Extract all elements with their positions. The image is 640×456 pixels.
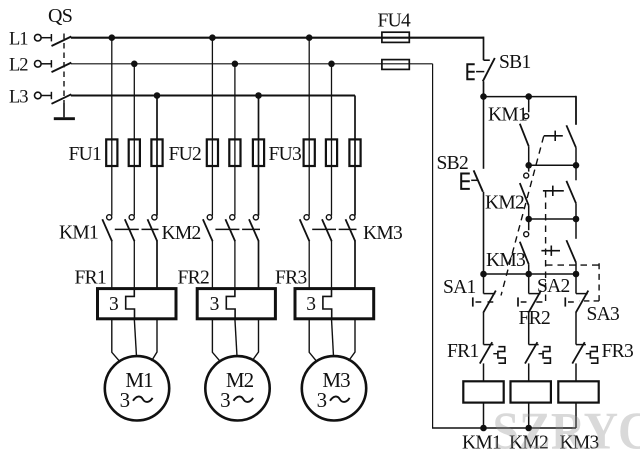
- svg-text:3: 3: [120, 388, 130, 412]
- wire rail SB1 to SB2: [483, 97, 485, 169]
- thermal contact FR1 hook: [498, 347, 505, 364]
- switch SA2 jog: [529, 293, 541, 295]
- fuse FU4 (L2): [382, 60, 409, 70]
- svg-text:FR2: FR2: [178, 268, 210, 289]
- pushbutton SB2 blade: [474, 170, 483, 191]
- manual contact 3 bar: [541, 250, 560, 252]
- switch SA3 handle tick: [564, 297, 566, 306]
- switch SA3 handle dash: [568, 301, 574, 303]
- fuse FU1 pole 3: [151, 139, 162, 166]
- wire branch 3 phase 2 lower: [331, 241, 333, 290]
- thermal contact FR3 lower wire: [575, 363, 577, 381]
- QS fixed contact tick L1: [50, 34, 52, 41]
- svg-text:SA3: SA3: [587, 304, 620, 325]
- wire L1 lead: [41, 37, 51, 39]
- svg-text:FU3: FU3: [269, 144, 302, 165]
- svg-text:L2: L2: [9, 56, 28, 76]
- fuse FU3 pole 1: [304, 139, 315, 166]
- wire L1 to control (corner down): [483, 37, 485, 61]
- wire branch 3 phase 3 lower: [354, 241, 356, 290]
- svg-text:FR2: FR2: [519, 308, 551, 329]
- svg-text:KM1: KM1: [59, 222, 98, 243]
- coil KM3: [558, 381, 598, 402]
- fuse FU3 pole 2: [326, 139, 337, 166]
- switch SA2 handle tick: [517, 297, 519, 306]
- switch SA1 handle dash 2: [488, 301, 494, 303]
- svg-text:KM1: KM1: [488, 105, 527, 126]
- terminal L2 circle: [35, 61, 42, 68]
- node A junction: [480, 93, 487, 100]
- node bus3-KM junction: [525, 216, 532, 223]
- fuse FU1 pole 2: [129, 139, 140, 166]
- pushbutton SB1 actuator: [467, 64, 474, 79]
- svg-text:QS: QS: [48, 5, 72, 27]
- thermal relay FR3 box: [295, 289, 374, 319]
- manual contact 3 blade: [566, 240, 576, 262]
- QS fixed contact tick L2: [50, 60, 52, 67]
- contact KM2 aux hook: [524, 173, 529, 178]
- wire branch 1 motor lead 1: [112, 319, 120, 361]
- thermal relay FR2 box: [197, 289, 275, 319]
- switch SA1 lower wire: [483, 313, 485, 345]
- thermal contact FR2 dash: [539, 353, 543, 355]
- fuse FU2 pole 3: [253, 139, 264, 166]
- svg-text:M1: M1: [125, 368, 153, 392]
- svg-text:L3: L3: [9, 87, 28, 107]
- contact KM2 aux blade: [520, 183, 529, 206]
- switch SA2 handle dash 2: [536, 301, 542, 303]
- switch SA2 blade: [528, 291, 541, 313]
- thermal contact FR3 dash: [586, 353, 590, 355]
- manual contact 1 lower wire: [575, 148, 577, 166]
- contactor KM1 main contact pole 2: [129, 215, 134, 220]
- svg-text:FU2: FU2: [169, 144, 202, 165]
- contactor KM1 main contact pole 1: [107, 215, 112, 220]
- switch SA3 lower wire: [575, 313, 577, 345]
- contactor KM2 link dash 2: [242, 228, 260, 230]
- thermal contact FR2 tick: [529, 344, 539, 346]
- wire branch 3 motor lead 1: [309, 319, 316, 361]
- motor M2: [205, 356, 269, 420]
- contact KM1 aux blade: [520, 124, 529, 147]
- node bus2-right junction: [573, 162, 580, 169]
- contact KM1 aux upper wire: [528, 97, 530, 113]
- fuse FU2 pole 2: [229, 139, 240, 166]
- svg-text:FR1: FR1: [447, 341, 479, 362]
- manual contact 2 lower wire: [575, 203, 577, 219]
- svg-text:FU4: FU4: [378, 11, 412, 32]
- wire branch 1 phase 3 upper: [156, 96, 158, 216]
- wire rail SB2 to bus4: [483, 192, 485, 274]
- svg-text:M2: M2: [226, 368, 254, 392]
- svg-text:SB2: SB2: [437, 153, 469, 174]
- contactor KM2 main contact pole 2: [230, 215, 235, 220]
- wire L2 lead: [41, 63, 51, 65]
- manual contact 3 lower wire: [575, 263, 577, 274]
- QS blade L3: [52, 94, 72, 104]
- wire L3 bus: [71, 95, 355, 97]
- contact KM3 aux lower wire: [528, 264, 530, 274]
- node bus3-right junction: [573, 216, 580, 223]
- wire bottom bus: [432, 427, 576, 429]
- QS blade L2: [52, 63, 72, 73]
- switch SA1 handle dash: [476, 301, 482, 303]
- pushbutton SB2 actuator: [461, 174, 470, 189]
- svg-text:FU1: FU1: [69, 144, 102, 165]
- switch SA1 handle tick: [472, 297, 474, 306]
- QS fixed contact tick L3: [50, 92, 52, 99]
- thermal relay FR1 box: [98, 289, 177, 319]
- svg-text:SA1: SA1: [443, 277, 476, 298]
- thermal contact FR1 tick: [484, 344, 494, 346]
- svg-text:M3: M3: [322, 368, 350, 392]
- node bus1-KM1 junction: [525, 93, 532, 100]
- contact KM1 aux lower wire: [528, 146, 530, 165]
- fuse FU1 pole 1: [106, 139, 117, 166]
- wire branch 2 motor lead 1: [212, 319, 220, 361]
- svg-text:SB1: SB1: [499, 52, 531, 73]
- switch SA1 blade: [483, 291, 496, 313]
- switch SA2 lower wire: [528, 313, 530, 345]
- mechanical link dashed vertical (bar2 to SA2): [545, 191, 547, 301]
- manual contact 2 bar tick: [552, 186, 554, 196]
- wire L3 lead: [41, 95, 51, 97]
- contactor KM3 main contact pole 1: [304, 215, 309, 220]
- wire branch 2 phase 1 upper: [211, 38, 213, 216]
- contactor KM2 main contact pole 3: [253, 215, 258, 220]
- ground bar: [54, 117, 75, 120]
- wire branch 1 phase 2 upper: [133, 64, 135, 216]
- pushbutton SB2 link dash: [471, 179, 477, 181]
- contactor KM1 main contact pole 3: [152, 215, 157, 220]
- wire branch 3 phase 1 lower: [308, 241, 310, 290]
- wire coil KM2 to bottom bus: [528, 403, 530, 428]
- wire branch 2 motor lead 3: [252, 319, 259, 361]
- switch SA1 jog: [484, 293, 496, 295]
- manual contact 1 bar tick: [554, 131, 556, 141]
- contactor KM1 link dash 2: [142, 228, 159, 230]
- terminal L3 circle: [35, 92, 42, 99]
- node L1 tap branch 1: [109, 34, 116, 41]
- svg-text:SA2: SA2: [537, 276, 570, 297]
- svg-text:FR3: FR3: [602, 341, 634, 362]
- node L2 tap branch 2: [232, 61, 239, 68]
- fuse FU4 (L1): [382, 32, 409, 42]
- contactor KM3 link dash 1: [312, 228, 336, 230]
- wire coil KM1 to bottom bus: [483, 403, 485, 428]
- thermal contact FR1 lower wire: [483, 363, 485, 381]
- contact KM3 aux upper wire: [528, 219, 530, 230]
- pushbutton SB1 blade: [483, 58, 495, 81]
- wire branch 2 phase 1 lower: [211, 241, 213, 290]
- thermal contact FR3 hook: [590, 347, 597, 364]
- node bus4-right junction: [573, 271, 580, 278]
- contact KM3 aux blade: [520, 242, 529, 265]
- svg-text:KM2: KM2: [162, 223, 201, 244]
- mechanical link dashed diagonal (bar1 to SA1): [501, 136, 544, 295]
- svg-text:KM3: KM3: [363, 223, 402, 244]
- wire branch 3 phase 1 upper: [308, 38, 310, 216]
- svg-text:3: 3: [317, 388, 327, 412]
- fuse FU2 pole 1: [207, 139, 218, 166]
- wire bus1: [484, 96, 577, 98]
- manual contact 2 blade: [566, 181, 576, 203]
- coil KM2: [511, 381, 551, 402]
- wire L2 bus: [71, 63, 433, 65]
- ground stem: [63, 103, 65, 117]
- node bottom bus KM1: [480, 425, 487, 432]
- wire coil KM3 to bottom bus: [575, 403, 577, 428]
- svg-text:3: 3: [220, 388, 230, 412]
- pushbutton SB1 link dash: [476, 71, 484, 73]
- motor M1: [105, 356, 169, 420]
- wire L2 return rail: [432, 64, 434, 428]
- switch SA2 handle dash: [521, 301, 527, 303]
- wire branch 2 motor lead 2: [235, 319, 237, 357]
- svg-text:KM2: KM2: [485, 193, 524, 214]
- switch SA3 upper wire: [575, 274, 577, 294]
- manual contact 2 upper wire: [575, 165, 577, 180]
- node L1 tap branch 3: [306, 34, 313, 41]
- svg-text:3: 3: [210, 294, 219, 315]
- svg-text:SZRYC: SZRYC: [493, 403, 640, 456]
- node L3 tap branch 2: [255, 92, 262, 99]
- contactor KM2 main contact pole 1: [207, 215, 212, 220]
- thermal contact FR1 blade: [480, 342, 492, 363]
- motor M3: [302, 356, 366, 420]
- thermal contact FR2 lower wire: [528, 363, 530, 381]
- wire branch 1 phase 2 lower: [133, 241, 135, 290]
- svg-text:L1: L1: [9, 30, 28, 50]
- switch SA3 blade: [576, 291, 589, 313]
- wire bus1 corner down: [575, 96, 577, 125]
- node bus2-KM junction: [525, 162, 532, 169]
- contact KM3 aux hook: [524, 232, 529, 237]
- manual contact 1 blade: [566, 125, 576, 147]
- coil KM1: [463, 381, 503, 402]
- wire branch 1 motor lead 3: [152, 319, 158, 361]
- wire bus3: [529, 218, 576, 220]
- node L2 tap branch 1: [131, 61, 138, 68]
- switch SA2 upper wire: [528, 274, 530, 294]
- thermal contact FR2 blade: [525, 342, 537, 363]
- wire branch 1 phase 1 lower: [111, 241, 113, 290]
- thermal contact FR3 blade: [572, 342, 584, 363]
- contactor KM2 link dash 1: [215, 228, 239, 230]
- svg-text:3: 3: [109, 294, 118, 315]
- switch SA1 upper wire: [483, 274, 485, 294]
- wire bus4: [484, 273, 577, 275]
- thermal relay FR3 heater jog: [323, 289, 332, 319]
- node L1 tap branch 2: [209, 34, 216, 41]
- manual contact 3 upper wire: [575, 219, 577, 239]
- wire branch 3 motor lead 2: [332, 319, 334, 357]
- node bottom bus KM2: [525, 425, 532, 432]
- svg-text:3: 3: [306, 294, 315, 315]
- wire branch 2 phase 3 upper: [258, 96, 260, 216]
- fuse FU3 pole 3: [349, 139, 360, 166]
- wire branch 3 phase 3 upper: [354, 96, 356, 216]
- mechanical link dashed path (bar3 to SA3) top: [546, 264, 599, 266]
- manual contact 3 bar tick: [550, 246, 552, 256]
- wire branch 2 phase 2 upper: [234, 64, 236, 216]
- QS blade L1: [52, 37, 72, 47]
- node bus4-mid junction: [525, 271, 532, 278]
- QS mechanical link (dashed): [63, 34, 65, 104]
- wire bus2: [529, 164, 576, 166]
- wire branch 1 phase 3 lower: [156, 241, 158, 290]
- thermal relay FR2 heater jog: [226, 289, 235, 319]
- thermal contact FR3 tick: [576, 344, 586, 346]
- switch SA3 jog: [576, 293, 588, 295]
- wire L1 bus: [71, 37, 484, 39]
- contactor KM3 main contact pole 3: [350, 215, 355, 220]
- thermal contact FR2 hook: [543, 347, 550, 364]
- manual contact 1 bar: [544, 135, 563, 137]
- manual contact 2 bar: [543, 190, 564, 192]
- contactor KM1 link dash 1: [115, 228, 139, 230]
- contact KM2 aux upper wire: [528, 165, 530, 171]
- svg-text:FR3: FR3: [275, 268, 307, 289]
- node L3 tap branch 1: [154, 92, 161, 99]
- node bus4-left junction: [480, 271, 487, 278]
- manual contact 1 upper wire: [575, 97, 577, 125]
- wire branch 1 motor lead 2: [134, 319, 136, 357]
- pushbutton SB1 fixed contact jog: [484, 59, 490, 61]
- node L2 tap branch 3: [328, 61, 335, 68]
- contactor KM3 main contact pole 2: [326, 215, 331, 220]
- wire branch 3 phase 2 upper: [331, 64, 333, 216]
- wire branch 1 phase 1 upper: [111, 38, 113, 216]
- wire branch 2 phase 3 lower: [258, 241, 260, 290]
- contact KM2 aux lower wire: [528, 206, 530, 219]
- contactor KM3 link dash 2: [339, 228, 357, 230]
- thermal contact FR1 dash: [493, 353, 497, 355]
- svg-text:FR1: FR1: [75, 268, 107, 289]
- wire branch 2 phase 2 lower: [234, 241, 236, 290]
- terminal L1 circle: [35, 34, 42, 41]
- wire branch 3 motor lead 3: [349, 319, 356, 361]
- thermal relay FR1 heater jog: [126, 289, 135, 319]
- wire SB1 to node A: [483, 81, 485, 96]
- contact KM1 aux hook: [524, 114, 529, 119]
- mechanical link dashed path (bar3 to SA3) right: [598, 263, 600, 301]
- mechanical link dashed path (bar3 to SA3) bottom: [580, 300, 600, 302]
- svg-text:KM3: KM3: [486, 250, 525, 271]
